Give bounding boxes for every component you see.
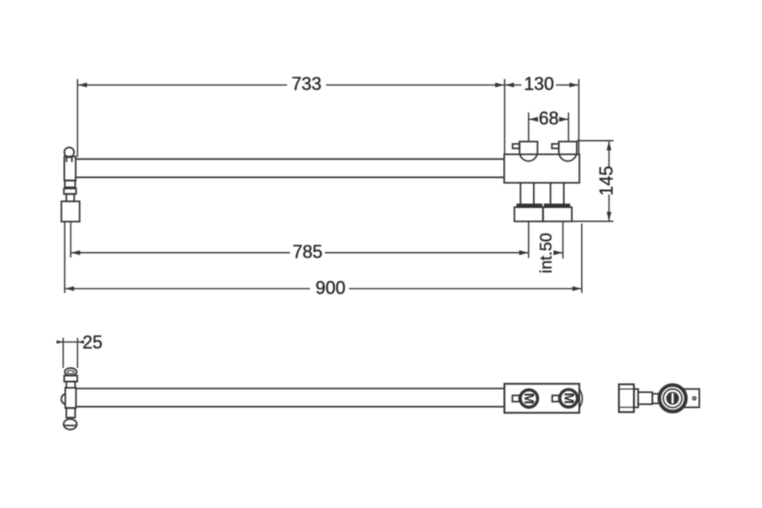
svg-text:25: 25 (83, 332, 103, 352)
svg-text:68: 68 (539, 108, 559, 128)
svg-text:145: 145 (597, 166, 617, 196)
svg-text:M: M (522, 393, 537, 404)
svg-text:785: 785 (292, 242, 322, 262)
svg-text:M: M (561, 393, 576, 404)
svg-text:int.50: int.50 (538, 233, 556, 273)
svg-text:900: 900 (315, 278, 345, 298)
svg-text:733: 733 (291, 74, 321, 94)
svg-text:130: 130 (524, 74, 554, 94)
